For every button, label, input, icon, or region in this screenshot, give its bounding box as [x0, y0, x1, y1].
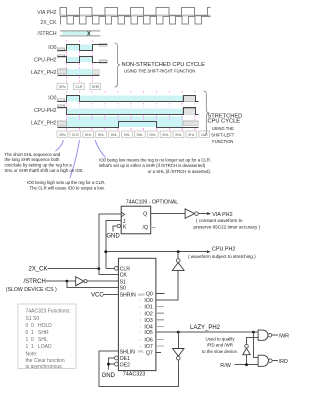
svg-text:SHRIN: SHRIN [120, 292, 136, 298]
wire IO0 to buffer input [156, 270, 178, 300]
svg-text:1 0 SHL: 1 0 SHL [26, 337, 48, 343]
svg-text:SRx: SRx [59, 85, 66, 89]
wire pointer curve from SHL box to right note [95, 140, 106, 157]
svg-text:USING THE SHIFT-RIGHT FUNCTION: USING THE SHIFT-RIGHT FUNCTION [124, 69, 195, 74]
gate U5 output bubble [268, 333, 272, 337]
transistor-level CLR input bubble [115, 266, 119, 270]
svg-text:IO0: IO0 [48, 45, 56, 51]
svg-text:IO0: IO0 [144, 298, 152, 304]
node R/W inverter bubble [245, 344, 249, 348]
wire /STRCH to S0 [67, 281, 119, 288]
svg-text:SHL: SHL [175, 133, 182, 137]
op-amp U1 pin K bubble [117, 224, 120, 227]
svg-text:↕: ↕ [139, 338, 141, 342]
svg-text:CLR: CLR [75, 85, 83, 89]
svg-text:LAZY_PH2: LAZY_PH2 [31, 70, 57, 76]
svg-text:↕: ↕ [139, 344, 141, 348]
wire /Q stub [151, 226, 156, 228]
node op box SHL #3 (stretched) [83, 131, 94, 137]
svg-text:CPU CYCLE: CPU CYCLE [208, 119, 241, 125]
svg-text:VIA PH2: VIA PH2 [37, 10, 56, 16]
node PH2 net junction at buffer [177, 250, 180, 253]
node 2X_CK junction [97, 267, 100, 270]
wire IO6 unconnected stub [156, 339, 164, 341]
wire OE2 stub [109, 363, 115, 365]
node R/W junction [245, 363, 248, 366]
wire /WR output [272, 334, 278, 336]
node CPU-PH2 dont-care left (non-stretched) [58, 55, 65, 58]
transistor Q-inv /STRCH inverter triangle [76, 277, 84, 286]
wire IO3 unconnected stub [156, 319, 164, 321]
transistor Q-inv2 LAZY inverter triangle (down) [173, 349, 184, 357]
svg-text:LAZY_PH2: LAZY_PH2 [190, 325, 221, 331]
svg-text:CLR: CLR [120, 266, 131, 272]
node brace (non-stretched group) [115, 43, 121, 87]
svg-text:GND: GND [106, 234, 120, 240]
wire VCC to SHRIN [103, 293, 118, 295]
node LAZY_PH2 dont-care right (stretched) [183, 121, 198, 126]
wire /RD output [272, 360, 278, 362]
wire Q0 stub [156, 293, 164, 295]
node op box SHL #5 (stretched) [109, 131, 120, 137]
svg-text:Q0: Q0 [146, 292, 153, 298]
svg-text:VCC: VCC [91, 292, 104, 298]
wire OE1/OE2 tie [109, 358, 115, 370]
svg-text:2X_CK: 2X_CK [40, 20, 57, 26]
wire 74AC109 J to PH2 net [106, 221, 121, 269]
svg-text:1 1 LOAD: 1 1 LOAD [26, 344, 53, 350]
svg-text:/STRCH: /STRCH [23, 279, 45, 285]
svg-text:SHL: SHL [85, 133, 92, 137]
svg-text:SHL: SHL [162, 133, 169, 137]
node LAZY_PH2 junction at inverter [177, 331, 180, 334]
node cyan highlight LAZY_PH2 (stretched) [67, 117, 184, 127]
svg-text:CK: CK [120, 273, 128, 279]
node LAZY_PH2 junction at RD branch [252, 331, 255, 334]
svg-text:IO0 being high sets up the reg: IO0 being high sets up the reg for a CLR… [27, 180, 105, 185]
svg-text:SRx: SRx [59, 133, 66, 137]
waveform VIA PH2 [60, 7, 211, 15]
waveform CPU-PH2 (non-stretched) [58, 57, 108, 63]
svg-text:↕: ↕ [139, 330, 141, 334]
svg-text:NON-STRETCHED CPU CYCLE: NON-STRETCHED CPU CYCLE [122, 62, 206, 68]
svg-text:SHIFT-LEFT: SHIFT-LEFT [211, 133, 234, 138]
svg-text:IO2: IO2 [144, 311, 152, 317]
op-amp U1 74AC109 body [121, 206, 151, 234]
wire IO4 unconnected stub [156, 325, 164, 327]
transistor Q-inv3 R/W inverter triangle (up) [243, 348, 250, 355]
svg-text:The short SHL sequence and: The short SHL sequence and [5, 152, 61, 157]
node cyan highlight LAZY_PH2 (non-stretched) [67, 69, 93, 75]
svg-text:or a SHL (if /STRCH is asserte: or a SHL (if /STRCH is asserted). [148, 169, 211, 174]
svg-text:IO3: IO3 [144, 318, 152, 324]
gate U5 NAND for /WR [258, 330, 268, 340]
node op box CLR (non-stretched) [74, 83, 85, 89]
wire LAZY_PH2 to /RD gate input [254, 332, 259, 358]
node OE2 bubble [115, 362, 119, 366]
node CPU.PH2 arrowhead [207, 250, 211, 253]
node PH2 net junction at J drop [104, 250, 107, 253]
node op box SHL #4 (stretched) [96, 131, 107, 137]
node IO0 dont-care left (stretched) [58, 99, 65, 102]
svg-text:the long SHR sequence both: the long SHR sequence both [5, 157, 61, 162]
node CPU-PH2 dont-care left (stretched) [58, 105, 65, 108]
svg-text:S1 S0: S1 S0 [26, 316, 40, 322]
svg-text:The CLR will cause IO0 to outp: The CLR will cause IO0 to output a low. [30, 185, 105, 190]
wire pointer curve from CLR box to lower note [70, 140, 80, 178]
svg-text:VIA PH2: VIA PH2 [212, 212, 232, 218]
node 74AC323 functions table box [18, 304, 76, 369]
node CPU-PH2 dont-care right (stretched) [183, 108, 195, 114]
svg-text:LAZY_PH2: LAZY_PH2 [31, 120, 57, 126]
wire pointer curve from SRx box to left note [56, 140, 64, 151]
svg-text:Used to qualify: Used to qualify [205, 336, 235, 341]
wire 2X_CK input [48, 268, 99, 270]
svg-text:IO0 being low means the reg is: IO0 being low means the reg is no longer… [99, 157, 211, 162]
node IO0 dont-care right (stretched) [183, 96, 195, 102]
svg-text:SHLIN: SHLIN [120, 349, 136, 355]
op-amp U2 74AC323 body [118, 258, 155, 370]
wire R/W input [234, 364, 258, 366]
wire IO2 unconnected stub [156, 312, 164, 314]
node /STRCH junction [66, 280, 69, 283]
waveform LAZY_PH2 (stretched) [58, 122, 199, 128]
node op box SHL #7 (stretched) [134, 131, 145, 137]
node op box SHL #9 (stretched) [160, 131, 171, 137]
svg-text:CPU-PH2: CPU-PH2 [34, 108, 57, 114]
node clock-edge dashed lines (stretched) [67, 91, 196, 131]
node cyan highlight IO0 (non-stretched) [67, 45, 93, 51]
node VIA PH2 arrowhead [207, 212, 211, 215]
op-amp U3 VIA PH2 inverter triangle [185, 209, 195, 218]
svg-text:SHL: SHL [138, 350, 144, 354]
svg-text:2X_CK: 2X_CK [29, 267, 48, 273]
svg-text:FUNCTION: FUNCTION [212, 139, 233, 144]
wire 2X_CK to U2 CK pin [99, 269, 119, 275]
node op box SHR (non-stretched) [90, 83, 101, 89]
svg-text:IO0: IO0 [48, 95, 56, 101]
waveform 2X_CK [60, 16, 211, 24]
node op box SHL #8 (stretched) [147, 131, 158, 137]
wire K to GND [113, 226, 117, 231]
svg-text:(SLOW DEVICE /CS ): (SLOW DEVICE /CS ) [6, 287, 57, 293]
wire inverted LAZY to SHLIN [99, 351, 179, 386]
svg-text:74AC109 - OPTIONAL: 74AC109 - OPTIONAL [126, 200, 179, 206]
svg-text:↕: ↕ [139, 312, 141, 316]
wire IO1 unconnected stub [156, 306, 164, 308]
node op box SRx (non-stretched) [57, 83, 68, 89]
wire VIA PH2 output [198, 213, 207, 215]
wire 74AC109 CK to 2X_CK net [99, 214, 121, 269]
node IO0 dont-care left (non-stretched) [58, 48, 65, 51]
svg-text:OE2: OE2 [120, 362, 130, 368]
node LAZY inverter bubble [177, 356, 181, 360]
svg-text:USING THE: USING THE [212, 126, 234, 131]
svg-text:Note:: Note: [26, 352, 38, 358]
svg-text:↕: ↕ [139, 305, 141, 309]
svg-text:preserve 65C22 timer accuracy: preserve 65C22 timer accuracy ) [194, 224, 261, 229]
svg-text:Q7: Q7 [146, 351, 153, 357]
wire CPU.PH2 net horizontal [106, 251, 208, 253]
svg-text:CLR: CLR [201, 133, 208, 137]
op-amp U3 output bubble [195, 212, 199, 216]
wire PH2 net to U2 CLR bubble [106, 267, 115, 269]
node LAZY_PH2 dont-care left (stretched) [58, 121, 67, 126]
wire Q7 stub [156, 352, 161, 354]
svg-text:CPU-PH2: CPU-PH2 [34, 57, 57, 63]
node op box SRx #1 (stretched) [57, 131, 68, 137]
node LAZY_PH2 dont-care right (non-stretched) [93, 70, 100, 75]
node IO0 dont-care right (non-stretched) [100, 43, 108, 46]
waveform LAZY_PH2 (non-stretched) [58, 75, 100, 77]
svg-text:the Clear function: the Clear function [26, 358, 65, 364]
svg-text:S0: S0 [120, 286, 126, 292]
wire IO7 unconnected stub [156, 345, 164, 347]
node /STRCH inverter bubble [84, 280, 87, 283]
svg-text:SHL: SHL [111, 133, 118, 137]
wire /STRCH input [46, 280, 76, 282]
node LAZY_PH2 dont-care left (non-stretched) [58, 69, 67, 74]
waveform IO0 (stretched) [58, 96, 199, 102]
wire inverter output to S1 [87, 280, 118, 282]
node cyan highlight CPU-PH2 (non-stretched) [67, 57, 93, 62]
svg-text:Q: Q [143, 211, 147, 217]
node /STRCH asserted-low region (cyan) [63, 32, 89, 36]
svg-text:74AC323 Functions:: 74AC323 Functions: [26, 309, 71, 315]
node op box SHL #11 (stretched) [186, 131, 197, 137]
svg-text:SHR: SHR [138, 293, 145, 297]
svg-text:↕: ↕ [139, 318, 141, 322]
node OE junction [107, 363, 110, 366]
node cyan highlight CPU-PH2 (stretched) [67, 108, 184, 114]
svg-text:K: K [123, 224, 127, 230]
wire /STRCH bus bar bottom band [60, 35, 100, 36]
svg-text:GND: GND [102, 373, 116, 379]
wire Q to VIA inverter [151, 213, 185, 215]
svg-text:IO5: IO5 [144, 330, 152, 336]
node op box SHL #10 (stretched) [173, 131, 184, 137]
node op box CLR #2 (stretched) [70, 131, 81, 137]
svg-text:74AC323: 74AC323 [123, 371, 145, 377]
wire overlap band between VIA PH2 low and 2X_CK high [60, 15, 211, 17]
op-amp U1 clock wedge [121, 212, 124, 217]
node clock-edge dashed lines (non-stretched) [67, 40, 93, 82]
svg-text:↕: ↕ [139, 298, 141, 302]
svg-text:↕: ↕ [139, 325, 141, 329]
node op box SHL #6 (stretched) [122, 131, 133, 137]
svg-text:CPU.PH2: CPU.PH2 [212, 246, 235, 252]
svg-text:to the slow device.: to the slow device. [202, 349, 238, 354]
wire IO5 LAZY_PH2 net [156, 331, 258, 333]
svg-text:/Q: /Q [143, 225, 148, 231]
waveform IO0 (non-stretched) [58, 45, 108, 51]
wire LAZY_PH2 to down inverter [177, 332, 179, 348]
svg-text:SHL: SHL [98, 133, 105, 137]
svg-text:( constant waveform to: ( constant waveform to [196, 218, 243, 223]
svg-text:is asynchronous.: is asynchronous. [26, 364, 64, 370]
svg-text:/WR: /WR [279, 333, 290, 339]
node 74AC323 functions table text [26, 309, 71, 370]
svg-text:OE1: OE1 [120, 356, 130, 362]
svg-text:SHL: SHL [188, 133, 195, 137]
svg-text:/RD and /WR: /RD and /WR [207, 343, 233, 348]
svg-text:0 0 HOLD: 0 0 HOLD [26, 323, 53, 329]
op-amp U4 CPU.PH2 buffer triangle [172, 263, 184, 271]
svg-text:/RD: /RD [279, 359, 288, 365]
svg-text:IO7: IO7 [144, 344, 152, 350]
svg-text:SHL: SHL [124, 133, 131, 137]
svg-text:0 1 SHR: 0 1 SHR [26, 330, 49, 336]
op-amp U2 IO direction marks [139, 298, 141, 348]
svg-text:/STRCH: /STRCH [38, 31, 57, 37]
svg-text:conclude by setting up the reg: conclude by setting up the reg for a [5, 163, 73, 168]
node brace (stretched group) [204, 91, 210, 135]
svg-text:S1: S1 [120, 279, 126, 285]
wire R/W to inverter input [246, 355, 248, 365]
op-amp U4 output bubble [176, 259, 180, 263]
svg-text:IO1: IO1 [144, 305, 152, 311]
node OE1 bubble [115, 356, 119, 360]
wire buffer output to PH2 net [177, 252, 179, 259]
svg-text:( waveform subject to stretchi: ( waveform subject to stretching ) [188, 254, 256, 259]
svg-text:SHL: SHL [136, 133, 143, 137]
svg-text:SHL or SHR that'll shift out a: SHL or SHR that'll shift out a high on I… [5, 168, 84, 173]
wire /STRCH bus bar top band [60, 30, 100, 31]
svg-text:SHR: SHR [92, 85, 100, 89]
node CPU-PH2 dont-care right (non-stretched) [100, 60, 108, 63]
svg-text:IO6: IO6 [144, 338, 152, 344]
node cyan highlight IO0 (stretched) [67, 96, 184, 102]
node op box CLR #12 (stretched) [199, 131, 210, 137]
svg-text:SHL: SHL [149, 133, 156, 137]
gate U6 output bubble [269, 359, 273, 363]
svg-text:R/W: R/W [220, 363, 231, 369]
wire inverted R/W to /WR gate [247, 337, 259, 344]
gate U6 NAND for /RD [258, 355, 268, 366]
node /STRCH transition X [88, 31, 91, 35]
svg-text:CLR: CLR [72, 133, 79, 137]
svg-text:What's set up is either a SHR: What's set up is either a SHR (if /STRCH… [99, 163, 206, 168]
waveform CPU-PH2 (stretched) [58, 108, 199, 115]
